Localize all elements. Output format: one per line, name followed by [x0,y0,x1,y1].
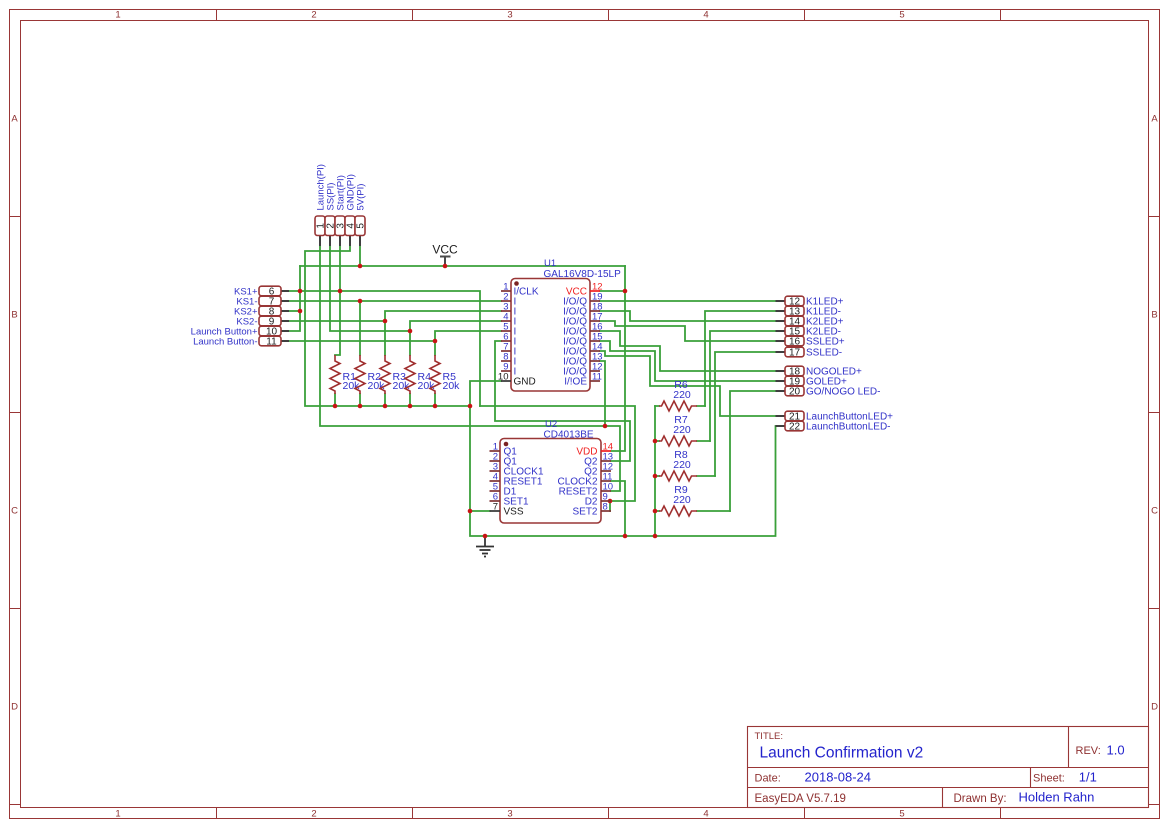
svg-text:A: A [1151,113,1158,124]
wire KS2- row [289,320,385,322]
wire R9 riser to conn20 [730,391,776,511]
node VCC flag [443,264,448,269]
wire U1 pin14 to conn21 [600,351,776,416]
wire R5 riser to U1 pin5 [435,331,501,355]
wire R1 bottom [334,394,336,406]
svg-text:GAL16V8D-15LP: GAL16V8D-15LP [544,269,622,280]
resistor R9 [659,484,697,516]
svg-text:Holden Rahn: Holden Rahn [1019,790,1095,805]
svg-text:20k: 20k [443,380,461,392]
svg-text:3: 3 [507,809,512,820]
node KS2-/R3 [383,319,388,324]
wire VCC rail [300,265,625,267]
node 5V/VCC [358,264,363,269]
svg-text:2: 2 [311,809,316,820]
wire U1 pin17 to conn16 [600,321,776,341]
node R7 left [653,439,658,444]
node U1 VCC [623,289,628,294]
wire VSS to U2 pin7 [470,510,490,512]
node CLOCK2/GND [623,534,628,539]
svg-text:D: D [11,701,18,712]
connector pins 12-22 (right) [776,296,894,432]
wire R6 riser to conn13 [705,311,776,406]
svg-text:220: 220 [673,389,691,401]
wire R7 leads [655,440,710,442]
svg-text:20: 20 [789,387,801,398]
IC U2 CD4013BE [490,419,614,523]
svg-text:VCC: VCC [432,243,458,257]
resistor R8 [659,449,697,481]
svg-text:U1: U1 [544,258,556,269]
wire U1 pin19 to conn12 [600,300,776,302]
svg-text:5: 5 [356,223,367,229]
svg-text:220: 220 [673,424,691,436]
svg-text:5: 5 [899,10,904,21]
svg-text:SSLED-: SSLED- [806,348,842,359]
node SS/R4 [408,329,413,334]
svg-text:22: 22 [789,422,801,433]
node ground sym [483,534,488,539]
wire U1 pin15 to conn19 [600,341,776,381]
wire R4 bottom [409,394,411,406]
wire KS2+ row [289,310,300,312]
svg-text:1/1: 1/1 [1079,769,1097,784]
node KS1-/R2 [358,299,363,304]
wire LaunchButton- row [289,340,435,342]
wire KS1- row to U1 pin2 [289,300,501,302]
node R4/GND [408,404,413,409]
svg-text:1: 1 [115,809,120,820]
node D2/SET2 [608,499,613,504]
svg-text:7: 7 [493,502,498,513]
svg-text:SET2: SET2 [572,507,597,518]
node KS1+/VCC [298,289,303,294]
wire R3 bottom [384,394,386,406]
node KS1+/R1 [338,289,343,294]
svg-text:11: 11 [266,337,277,348]
svg-text:Sheet:: Sheet: [1033,772,1065,784]
ground [476,536,494,557]
wire GND rail down to U2 area and conn22 [470,406,776,536]
IC U1 GAL16V8D-15LP [498,258,621,391]
svg-text:1: 1 [115,10,120,21]
resistor R7 [659,414,697,446]
resistor R2 [355,355,385,394]
svg-text:B: B [1151,309,1157,320]
svg-text:5: 5 [899,809,904,820]
wire Start(PI) net [339,246,341,291]
wire R5 bottom [434,394,436,406]
svg-text:Launch Button-: Launch Button- [193,337,257,348]
svg-text:C: C [11,505,18,516]
resistor R3 [380,355,410,394]
connector header pins 1-5 [315,164,367,246]
wire R1 jog from KS1+ row [335,291,340,355]
wire VCC to U2 VDD [611,291,625,451]
wire U1 pin16 to conn18 [600,331,776,371]
svg-text:I/!OE: I/!OE [564,377,587,388]
svg-text:3: 3 [507,10,512,21]
svg-text:VSS: VSS [504,507,524,518]
svg-text:2: 2 [311,10,316,21]
wire Launch net to U2 RESET2 [605,426,620,491]
wire R6 leads [655,405,705,407]
node VSS [468,509,473,514]
svg-text:REV:: REV: [1076,745,1101,757]
svg-text:C: C [1151,505,1158,516]
wire resistor common GND [654,406,656,536]
svg-text:Drawn By:: Drawn By: [954,793,1007,805]
svg-text:10: 10 [498,372,509,383]
svg-text:5V(PI): 5V(PI) [356,184,367,211]
wire R8 leads [655,475,715,477]
svg-text:LaunchButtonLED-: LaunchButtonLED- [806,422,891,433]
svg-text:4: 4 [703,10,708,21]
node R8 left [653,474,658,479]
wire U1 GND pin to rail [470,381,501,406]
wire 5V(PI) to VCC rail [359,246,361,266]
svg-text:17: 17 [789,348,801,359]
wire R2 bottom [359,394,361,406]
svg-text:220: 220 [673,459,691,471]
svg-text:4: 4 [703,809,708,820]
wire Launch(PI) net [320,246,605,426]
power flag VCC [440,257,451,267]
node R2/GND [358,404,363,409]
svg-text:220: 220 [673,494,691,506]
svg-text:GND: GND [514,377,536,388]
title block [748,727,1149,808]
connector pins 6-11 (left) [191,286,289,347]
wire KS1+ row [289,291,480,406]
node R common/GND [653,534,658,539]
svg-text:SSLED+: SSLED+ [806,337,845,348]
wire U1 pin6 to U2 Q2 [495,341,630,461]
wire KS1+ net to U2 D2/SET2 [480,406,635,511]
wire U1 pin18 to conn14 [600,311,776,321]
node Launch/U1.13/U2 [603,424,608,429]
svg-text:Date:: Date: [755,772,781,784]
svg-text:GO/NOGO LED-: GO/NOGO LED- [806,387,880,398]
svg-text:D: D [1151,701,1158,712]
resistor R6 [659,379,697,411]
node R5/GND [433,404,438,409]
node LaunchButton-/R5 [433,339,438,344]
node GND rail [468,404,473,409]
wire VCC drop to plus pins / conn10 [289,266,300,331]
node R1/GND [333,404,338,409]
svg-text:16: 16 [789,337,801,348]
svg-text:CD4013BE: CD4013BE [544,430,594,441]
wire R7 riser to conn15 [710,331,776,441]
wire R9 leads [655,510,730,512]
resistor R4 [405,355,435,394]
wire R2 riser [359,301,361,355]
wire R8 riser to conn17 [715,352,776,476]
node R3/GND [383,404,388,409]
node R9 left [653,509,658,514]
svg-text:11: 11 [592,372,602,383]
wire R4 riser to U1 pin4 [410,321,501,355]
svg-text:B: B [11,309,17,320]
svg-text:TITLE:: TITLE: [755,731,784,742]
resistor R5 [430,355,460,394]
resistor R1 [330,355,360,394]
wire VCC to U1 VCC pin [600,266,625,291]
svg-text:A: A [11,113,18,124]
wire U1 pin13 to Launch node [600,361,605,426]
wire R3 riser to U1 pin3 [385,311,501,355]
wire U2 CLOCK2 to GND [611,481,625,536]
svg-text:2018-08-24: 2018-08-24 [805,769,872,784]
svg-text:I/CLK: I/CLK [514,287,539,298]
wire GND(PI) net + GND rail [305,246,470,406]
svg-text:U2: U2 [545,419,557,430]
svg-text:Launch Confirmation v2: Launch Confirmation v2 [760,745,924,762]
svg-text:1.0: 1.0 [1107,743,1125,758]
node KS2+/VCC [298,309,303,314]
svg-text:8: 8 [603,502,608,513]
wire SS(PI) net [330,246,410,331]
svg-text:EasyEDA V5.7.19: EasyEDA V5.7.19 [755,793,846,805]
